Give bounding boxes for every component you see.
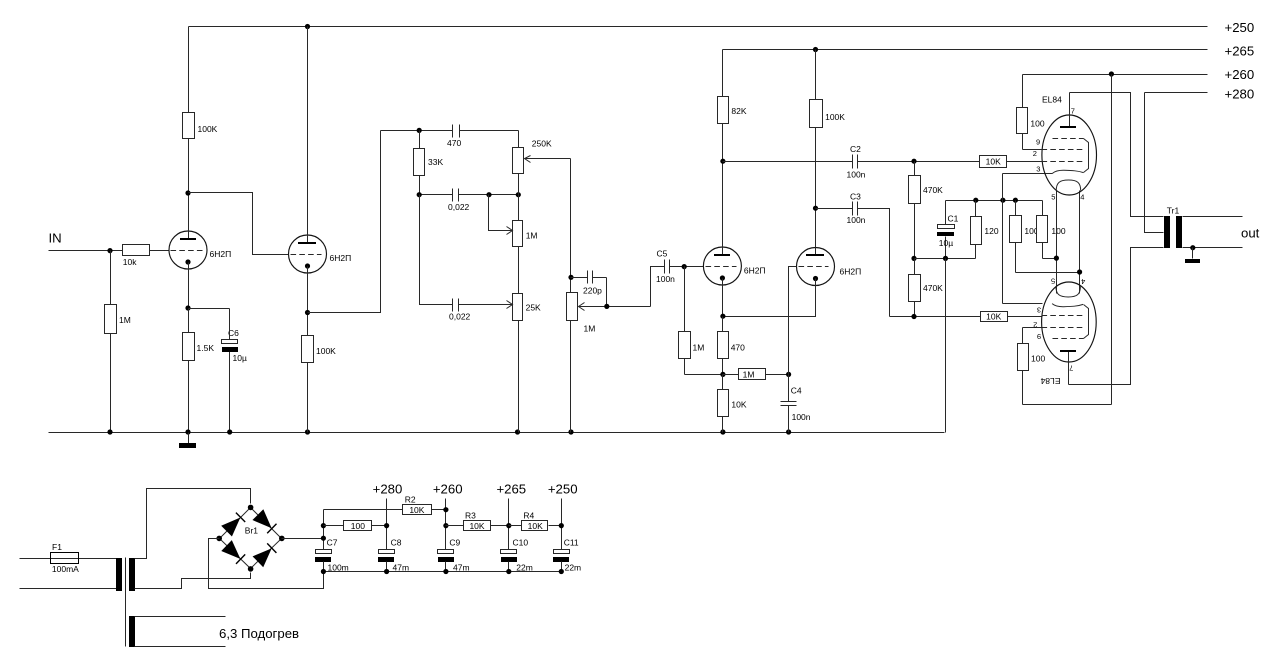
svg-text:1M: 1M xyxy=(119,315,131,325)
wire: C3 row xyxy=(816,209,981,317)
capacitor C6 10u xyxy=(222,309,247,433)
svg-text:+260: +260 xyxy=(1225,67,1255,82)
resistor 1M (V2a grid leak) xyxy=(679,267,723,375)
svg-text:C4: C4 xyxy=(791,386,802,396)
svg-text:1M: 1M xyxy=(743,369,755,379)
resistor 100K (V1a plate) xyxy=(183,27,218,193)
svg-text:470K: 470K xyxy=(923,283,943,293)
svg-text:1M: 1M xyxy=(526,231,538,241)
svg-text:100: 100 xyxy=(1051,226,1065,236)
svg-text:7: 7 xyxy=(1069,364,1073,373)
svg-text:R4: R4 xyxy=(523,510,534,520)
resistor 100 (first filter) xyxy=(324,521,387,532)
capacitor C5 100n xyxy=(656,249,704,284)
wire: +260 feed down to V4 screen xyxy=(1111,75,1113,405)
wire: bias node row xyxy=(915,256,976,261)
capacitor C4 100n xyxy=(781,375,811,433)
wire: +280 stub xyxy=(384,499,389,550)
svg-text:+265: +265 xyxy=(496,482,526,497)
wire: secondary AC1 to bridge top xyxy=(135,489,251,559)
potentiometer 250K (treble) xyxy=(513,139,552,221)
wire: treble wiper down to volume pot xyxy=(568,159,573,293)
svg-text:0,022: 0,022 xyxy=(449,312,471,322)
svg-text:100n: 100n xyxy=(656,274,675,284)
resistor R2 10K xyxy=(324,495,446,515)
svg-text:0,022: 0,022 xyxy=(448,202,470,212)
capacitor C2 100n xyxy=(847,144,866,179)
svg-text:100n: 100n xyxy=(792,412,811,422)
svg-text:+260: +260 xyxy=(433,482,463,497)
wire: heater link pins 4 xyxy=(1077,191,1082,294)
ground symbol xyxy=(179,433,196,449)
svg-text:+280: +280 xyxy=(373,482,403,497)
svg-text:100mA: 100mA xyxy=(52,564,79,574)
pentode V3 EL84 (top) xyxy=(1033,93,1097,202)
svg-text:250K: 250K xyxy=(532,139,552,149)
resistor 100K (V2b plate) xyxy=(810,50,846,248)
transformer Tr1 xyxy=(1164,205,1182,248)
capacitor 470 xyxy=(447,125,461,148)
svg-text:C3: C3 xyxy=(850,191,861,201)
diode D2 (top to right) xyxy=(254,511,277,534)
svg-text:5: 5 xyxy=(1051,193,1055,202)
triode V1a 6H2P xyxy=(169,193,231,309)
svg-text:C8: C8 xyxy=(391,538,402,548)
pentode V4 EL84 (bottom, mirrored) xyxy=(1033,277,1096,386)
wire: +250 rail xyxy=(189,24,1208,29)
svg-text:10K: 10K xyxy=(986,156,1001,166)
resistor 470 (V2 cathode) xyxy=(718,317,746,375)
wire: secondary bottom xyxy=(1183,245,1243,250)
svg-text:7: 7 xyxy=(1071,107,1075,116)
potentiometer 25K (bass lower) xyxy=(513,294,542,433)
resistor 470K (lower) xyxy=(909,259,944,317)
resistor R4 10K xyxy=(509,510,562,531)
svg-text:470K: 470K xyxy=(923,185,943,195)
wire: mains bottom xyxy=(20,588,117,590)
wire: volume to C5 xyxy=(651,267,665,307)
resistor 100 (humdinger right) xyxy=(1037,201,1066,259)
svg-text:120: 120 xyxy=(984,226,998,236)
wiper arrow volume xyxy=(579,303,651,311)
svg-text:100: 100 xyxy=(1031,353,1045,363)
svg-text:100n: 100n xyxy=(847,215,866,225)
svg-text:220p: 220p xyxy=(583,286,602,296)
svg-text:C1: C1 xyxy=(948,214,959,224)
svg-text:100: 100 xyxy=(351,521,365,531)
transformer T1 secondary bar xyxy=(129,558,135,591)
svg-text:100n: 100n xyxy=(847,169,866,179)
wire: bridge positive to C7 xyxy=(282,538,324,540)
capacitor C1 10u xyxy=(937,201,959,259)
svg-text:100K: 100K xyxy=(316,346,336,356)
node C3 output junction xyxy=(911,314,916,319)
wire: tone stack top row xyxy=(381,128,519,148)
wire: +260 rail xyxy=(1023,71,1208,76)
svg-text:2: 2 xyxy=(1033,321,1037,330)
wire: heater winding top xyxy=(135,616,226,618)
wire: +250 stub xyxy=(559,499,564,550)
svg-text:10K: 10K xyxy=(986,312,1001,322)
svg-text:3: 3 xyxy=(1036,164,1040,173)
svg-text:100K: 100K xyxy=(198,124,218,134)
svg-text:10k: 10k xyxy=(123,257,137,267)
wire: +265 stub xyxy=(506,499,511,550)
resistor 10K (lower grid stopper, boxed) xyxy=(981,312,1043,322)
svg-text:Br1: Br1 xyxy=(245,525,258,535)
resistor 10K (tail) xyxy=(718,375,747,433)
resistor 120 (cathode bias) xyxy=(971,201,999,259)
node V2b grid junction xyxy=(786,372,791,377)
fuse F1 100mA xyxy=(20,542,117,574)
svg-text:10K: 10K xyxy=(731,399,746,409)
svg-text:2: 2 xyxy=(1033,149,1037,158)
wire: +265 rail xyxy=(723,47,1208,52)
capacitor 220p xyxy=(571,271,607,307)
svg-text:+265: +265 xyxy=(1225,43,1255,58)
transformer T1 heater winding bar xyxy=(129,616,135,647)
resistor 82K (V2a plate) xyxy=(718,50,747,162)
wire: bias to ground xyxy=(945,259,947,433)
diode D3 (left to bottom) xyxy=(223,541,246,564)
svg-text:+250: +250 xyxy=(548,482,578,497)
wire: ground rail xyxy=(49,429,945,434)
svg-text:6Н2П: 6Н2П xyxy=(840,266,862,276)
svg-text:C7: C7 xyxy=(327,538,338,548)
capacitor 0,022 (treble upper) xyxy=(448,189,470,213)
resistor 100 (V4 screen) xyxy=(1018,328,1112,405)
capacitor 0,022 (bass lower) xyxy=(449,299,471,322)
diode D4 (bottom to right) xyxy=(254,543,277,566)
svg-text:R2: R2 xyxy=(405,495,416,505)
wire: cathode to C6 xyxy=(189,308,230,310)
resistor 470K (upper) xyxy=(909,162,944,259)
svg-text:6,3 Подогрев: 6,3 Подогрев xyxy=(219,626,299,641)
wire: bridge negative to filter ground xyxy=(209,539,324,589)
wire: input xyxy=(49,248,123,253)
svg-text:C2: C2 xyxy=(850,144,861,154)
resistor 100 (V3 screen) xyxy=(1017,75,1045,150)
wiper arrow 25K xyxy=(507,301,513,309)
potentiometer 1M (bass) xyxy=(513,221,538,294)
resistor 100K (V1b cathode) xyxy=(302,336,337,433)
ground symbol (secondary) xyxy=(1185,248,1200,264)
capacitor C3 100n xyxy=(847,191,866,225)
capacitor C10 22m xyxy=(501,538,533,573)
node V1a plate junction xyxy=(185,190,190,195)
capacitor C8 47m xyxy=(378,538,409,573)
triode V2b 6H2P xyxy=(723,248,862,317)
svg-text:1M: 1M xyxy=(693,343,705,353)
node V1a cathode junction xyxy=(185,305,190,310)
svg-text:5: 5 xyxy=(1051,277,1055,286)
svg-text:100: 100 xyxy=(1030,119,1044,129)
wire: +280 rail xyxy=(1145,92,1208,94)
bridge rectifier Br1 xyxy=(216,505,284,572)
wire: C2 row xyxy=(723,161,980,163)
node V2b plate junction xyxy=(813,206,818,211)
potentiometer 1M (volume) xyxy=(567,293,596,433)
transformer T1 primary bar xyxy=(116,558,122,591)
svg-text:10K: 10K xyxy=(469,521,484,531)
wire: +280 to center tap xyxy=(1145,93,1164,233)
node V2a plate junction xyxy=(720,159,725,164)
svg-text:82K: 82K xyxy=(731,106,746,116)
resistor 1M (input grid leak) xyxy=(105,251,131,433)
svg-text:EL84: EL84 xyxy=(1042,94,1062,104)
node V1b cathode junction xyxy=(305,310,310,315)
resistor 1.5K (V1a cathode) xyxy=(183,309,215,433)
svg-text:25K: 25K xyxy=(526,303,541,313)
resistor 33K xyxy=(414,131,444,195)
svg-text:C9: C9 xyxy=(449,538,460,548)
svg-text:100K: 100K xyxy=(825,112,845,122)
svg-text:IN: IN xyxy=(49,231,62,246)
svg-text:33K: 33K xyxy=(428,157,443,167)
wire: C7 riser xyxy=(321,510,326,550)
wire: cathodes riser xyxy=(1003,174,1053,304)
svg-text:470: 470 xyxy=(447,138,461,148)
wire: V3 plate to transformer xyxy=(1070,93,1164,217)
svg-text:4: 4 xyxy=(1081,277,1085,286)
resistor 10k (grid stopper) xyxy=(123,245,169,267)
wire: secondary AC2 to bridge bottom xyxy=(135,573,251,589)
wire: V2b grid riser xyxy=(789,267,797,375)
svg-text:6Н2П: 6Н2П xyxy=(744,265,766,275)
svg-text:10µ: 10µ xyxy=(939,238,953,248)
wire: heater link pins 5 xyxy=(1054,191,1059,294)
svg-text:EL84: EL84 xyxy=(1040,376,1060,386)
node V2a grid junction xyxy=(682,264,687,269)
svg-text:10µ: 10µ xyxy=(233,353,247,363)
svg-text:Tr1: Tr1 xyxy=(1167,205,1180,215)
svg-text:R3: R3 xyxy=(465,510,476,520)
triode V2a 6H2P xyxy=(703,162,765,317)
resistor 10K (upper grid stopper, boxed) xyxy=(980,156,1043,168)
node tail junction xyxy=(720,372,725,377)
wire: filter ground bus xyxy=(321,569,564,574)
triode V1b 6H2P (cathode follower) xyxy=(289,27,352,336)
svg-text:C5: C5 xyxy=(657,249,668,259)
svg-text:+280: +280 xyxy=(1225,86,1255,101)
node bias midpoint xyxy=(911,256,916,261)
diode D1 (left to top) xyxy=(222,513,245,536)
resistor R3 10K xyxy=(446,510,509,531)
wire: V1a plate to V1b grid xyxy=(189,193,289,255)
svg-text:4: 4 xyxy=(1080,193,1084,202)
resistor 100 (humdinger left) xyxy=(1010,201,1080,273)
resistor 1M (boxed, feedback) xyxy=(723,369,789,380)
wire: tone stack middle row xyxy=(417,192,521,197)
svg-text:6Н2П: 6Н2П xyxy=(210,249,232,259)
capacitor C9 47m xyxy=(438,538,470,573)
wire: V4 plate to transformer xyxy=(1069,248,1164,385)
svg-text:9: 9 xyxy=(1036,138,1040,147)
capacitor C11 22m xyxy=(553,538,581,573)
node cathode junction V2 xyxy=(720,314,725,319)
svg-text:22m: 22m xyxy=(565,563,582,573)
svg-text:F1: F1 xyxy=(52,542,62,552)
transformer T1 core xyxy=(125,558,127,647)
svg-text:1.5K: 1.5K xyxy=(197,343,215,353)
svg-text:+250: +250 xyxy=(1225,20,1255,35)
svg-text:6Н2П: 6Н2П xyxy=(330,253,352,263)
svg-text:C10: C10 xyxy=(513,538,529,548)
svg-text:470: 470 xyxy=(731,343,745,353)
wire: heater winding bottom xyxy=(135,646,226,648)
wire: tone stack bottom row xyxy=(420,195,513,305)
svg-text:1M: 1M xyxy=(584,324,596,334)
wiper arrow 1M bass xyxy=(489,195,513,235)
wire: cathode follower output to tone stack xyxy=(308,131,381,313)
svg-text:3: 3 xyxy=(1037,305,1041,314)
wiper arrow 250K xyxy=(525,156,571,163)
capacitor C7 100m xyxy=(315,538,349,573)
wire: cathode bus xyxy=(946,198,1043,203)
svg-text:9: 9 xyxy=(1037,332,1041,341)
svg-text:C11: C11 xyxy=(564,538,579,548)
svg-text:10K: 10K xyxy=(409,505,424,515)
svg-text:10K: 10K xyxy=(528,521,543,531)
wire: +260 stub xyxy=(443,499,448,550)
wire: secondary top xyxy=(1183,216,1243,218)
svg-text:out: out xyxy=(1241,226,1260,241)
node C2 output junction xyxy=(911,159,916,164)
